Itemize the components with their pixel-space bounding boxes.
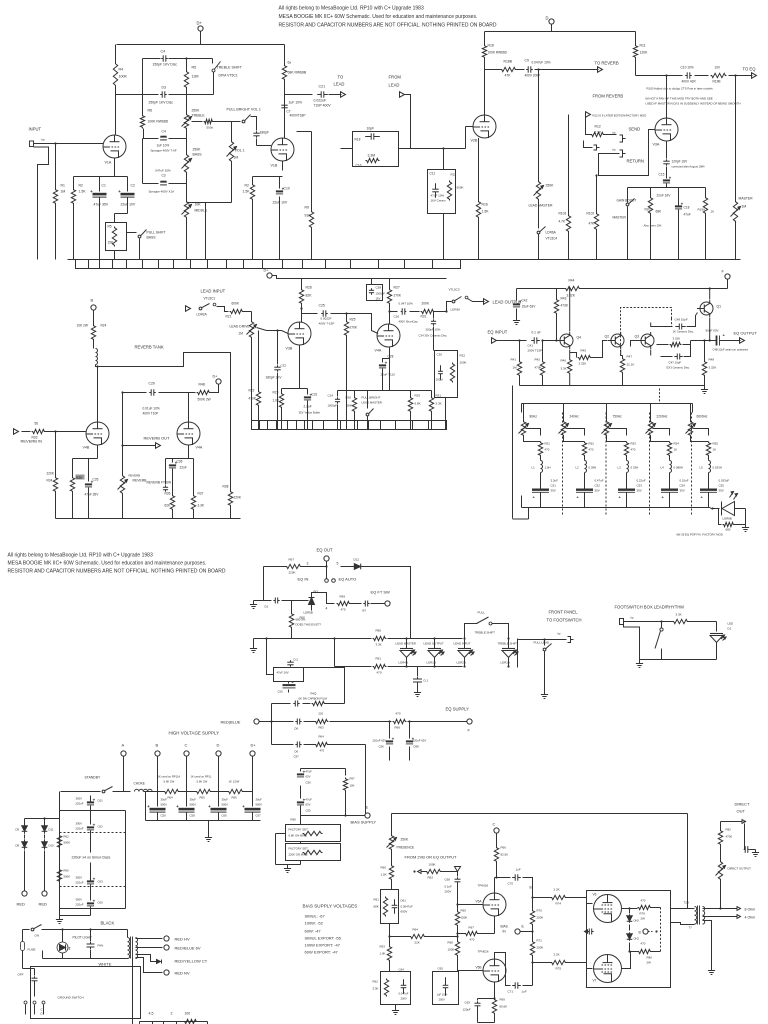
resistor R80 470 2W	[638, 942, 653, 965]
arrow TO LEAD	[329, 75, 346, 98]
svg-text:C: C	[185, 743, 188, 748]
label pin5	[337, 562, 339, 566]
wire V4A cathode	[166, 445, 194, 495]
svg-text:D.1: D.1	[424, 679, 429, 683]
svg-text:0.047 10%: 0.047 10%	[399, 302, 414, 306]
potentiometer bass 250K	[182, 130, 203, 201]
arrow lead input	[186, 306, 191, 312]
svg-text:1K 1/2W: 1K 1/2W	[229, 780, 240, 784]
svg-text:5.6K 2W: 5.6K 2W	[164, 780, 175, 784]
capacitor 120pF cathode	[663, 141, 705, 169]
triode V2B	[471, 115, 497, 143]
svg-text:Q4: Q4	[577, 336, 582, 340]
svg-text:D: D	[546, 16, 549, 21]
svg-text:500K 2W: 500K 2W	[198, 398, 211, 402]
svg-text:35V Yellow Bullet: 35V Yellow Bullet	[299, 411, 321, 415]
wire V5A grid	[456, 903, 483, 905]
label EQ SUPPLY	[446, 707, 470, 712]
diode D9	[16, 823, 28, 834]
svg-text:15K: 15K	[108, 241, 115, 245]
resistor R1 1M	[53, 142, 65, 259]
svg-text:+: +	[90, 189, 93, 194]
node HV D+	[250, 743, 256, 792]
svg-text:1000pF: 1000pF	[328, 404, 338, 408]
svg-text:475: 475	[341, 608, 346, 612]
resistor R65b 150K	[455, 905, 467, 934]
wire gain boost rail	[628, 185, 706, 205]
resistor R55 1K	[706, 442, 718, 457]
capacitor D6a	[272, 719, 302, 731]
svg-text:C15: C15	[659, 173, 665, 177]
resistor R12 2.2K	[586, 115, 617, 137]
svg-text:47uF: 47uF	[306, 798, 313, 802]
svg-text:400V T10P: 400V T10P	[143, 412, 159, 416]
svg-text:100K: 100K	[460, 361, 467, 365]
svg-text:OFF: OFF	[18, 973, 24, 977]
svg-text:22K: 22K	[415, 941, 420, 945]
capacitor C46 50uF out	[691, 329, 741, 346]
svg-text:L1: L1	[532, 466, 536, 470]
svg-text:CHOKE: CHOKE	[134, 782, 145, 786]
node B	[91, 298, 97, 311]
svg-text:50uF 63V: 50uF 63V	[706, 329, 719, 333]
capacitor C54 0.15uF	[661, 479, 689, 508]
svg-text:220K: 220K	[234, 496, 242, 500]
svg-text:R98: R98	[291, 818, 297, 822]
wire Q1 emitter out	[709, 318, 717, 342]
svg-text:V1B: V1B	[271, 164, 278, 168]
node D+ supply	[197, 21, 204, 32]
svg-text:EQ SUPPLY: EQ SUPPLY	[446, 707, 470, 712]
switch pull bright lead	[362, 391, 382, 430]
svg-text:.47uF 35V: .47uF 35V	[93, 203, 109, 207]
svg-text:.047uF 10%: .047uF 10%	[155, 169, 172, 173]
resistor R24 10K 2W	[77, 310, 107, 340]
svg-text:3.3M: 3.3M	[368, 154, 376, 158]
input jack direct	[413, 870, 425, 874]
svg-text:LEAD: LEAD	[334, 82, 345, 87]
svg-text:BLACK: BLACK	[101, 921, 115, 926]
svg-text:3.32K: 3.32K	[567, 294, 576, 298]
wire Q4 collector	[569, 287, 571, 331]
capacitor C42 15uF	[513, 289, 536, 317]
potentiometer lead drive 1M	[230, 312, 257, 430]
pentode V6	[593, 893, 622, 923]
wire cathode V1B	[253, 161, 283, 189]
label EQ OUT	[317, 548, 333, 553]
capacitor 180pF bright	[253, 122, 269, 146]
svg-text:MESA BOOGIE MK IIC+ 60W Schema: MESA BOOGIE MK IIC+ 60W Schematic. Used …	[279, 14, 478, 20]
title text block top	[279, 6, 497, 29]
svg-text:VTL5C1: VTL5C1	[204, 297, 216, 301]
fan capacitor	[87, 928, 104, 958]
svg-text:R19B: R19B	[713, 80, 721, 84]
svg-text:+: +	[385, 360, 388, 365]
svg-text:200V: 200V	[401, 997, 407, 1001]
wire fsw top	[624, 620, 673, 622]
svg-text:R21: R21	[226, 315, 232, 319]
svg-text:1uF 10%: 1uF 10%	[437, 993, 448, 997]
svg-text:C10 10%: C10 10%	[681, 66, 694, 70]
potentiometer master 1M	[731, 74, 754, 259]
svg-text:C60: C60	[98, 901, 104, 905]
wire V4A plate out	[388, 310, 397, 324]
svg-text:500V: 500V	[190, 803, 197, 807]
svg-text:D+: D+	[264, 269, 270, 273]
svg-text:SEND: SEND	[629, 127, 641, 132]
svg-text:500K: 500K	[64, 875, 71, 879]
resistor R70 200K	[530, 890, 543, 941]
svg-text:250pF 1KV Disc: 250pF 1KV Disc	[149, 101, 174, 105]
svg-text:R52: R52	[589, 442, 595, 446]
svg-text:R62: R62	[373, 980, 379, 984]
potentiometer middle 10K	[182, 201, 209, 260]
resistor R68b 150K	[448, 934, 460, 971]
svg-text:Q3: Q3	[635, 335, 640, 339]
wire OT ground leg	[703, 921, 716, 975]
wire V1B plate rail	[284, 45, 286, 139]
resistor R33 56	[22, 422, 46, 440]
svg-text:1uF 10%: 1uF 10%	[289, 101, 303, 105]
svg-text:150K: 150K	[448, 948, 455, 952]
svg-text:2200Hz: 2200Hz	[657, 415, 668, 419]
resistor R64b 22K	[390, 928, 459, 945]
svg-text:R62: R62	[428, 876, 434, 880]
resistor R69 475	[337, 595, 351, 612]
triode V5A	[476, 884, 507, 917]
potentiometer treble 250K	[182, 95, 206, 130]
wire V5B plate C71	[495, 953, 511, 986]
resistor R19A	[698, 197, 715, 260]
svg-text:LDR1B: LDR1B	[427, 661, 436, 665]
resistor R64 470	[304, 735, 366, 753]
capacitor D98 220uF	[406, 736, 426, 760]
svg-text:TREBLE SHIFT: TREBLE SHIFT	[475, 631, 496, 635]
svg-text:1.5K: 1.5K	[79, 190, 87, 194]
arrow TO EQ	[743, 67, 757, 79]
svg-text:2W: 2W	[647, 961, 652, 965]
resistor R67b 470	[456, 926, 494, 942]
tone slope rail C4	[143, 130, 187, 153]
eq band label 2200Hz	[657, 415, 668, 419]
resistor R22 470K	[249, 331, 261, 430]
svg-text:D1: D1	[728, 627, 732, 631]
svg-text:R37: R37	[198, 492, 204, 496]
resistor R25 270K	[331, 312, 358, 429]
capacitor C55 47uF	[291, 797, 313, 821]
resistor R8 68K	[282, 61, 307, 81]
eq band label 6600Hz	[697, 415, 708, 419]
arrow eq input	[492, 338, 527, 344]
svg-text:35V: 35V	[680, 489, 685, 493]
wire left plate drop	[115, 45, 117, 135]
svg-text:120K: 120K	[640, 51, 649, 55]
parallel C11 R11 box	[428, 149, 456, 260]
svg-text:C2: C2	[131, 184, 135, 188]
svg-text:400V/T18P: 400V/T18P	[290, 114, 306, 118]
wire grid V3B	[276, 329, 288, 333]
svg-text:470K: 470K	[535, 366, 542, 370]
svg-text:tip: tip	[558, 632, 561, 636]
resistor R18 100K	[482, 44, 507, 116]
capacitor C32 180pF	[266, 364, 287, 430]
svg-text:16V Ceram: 16V Ceram	[431, 199, 447, 203]
svg-text:47uF 35V: 47uF 35V	[85, 493, 100, 497]
svg-text:VOL 1: VOL 1	[235, 149, 245, 153]
node B screen	[639, 929, 658, 935]
node C	[493, 822, 500, 847]
svg-text:tip: tip	[631, 616, 634, 620]
wire mains bottom rail	[63, 958, 91, 960]
svg-text:10K: 10K	[350, 784, 355, 788]
note master mod	[646, 97, 741, 106]
dashed feedback box	[621, 308, 672, 404]
diode D83	[627, 919, 640, 953]
wire tone mid rail	[116, 94, 214, 96]
svg-text:C: C	[493, 822, 496, 827]
svg-text:+: +	[93, 876, 96, 881]
svg-text:0.033uF: 0.033uF	[719, 479, 730, 483]
svg-text:R11: R11	[640, 44, 646, 48]
svg-text:C30: C30	[437, 353, 443, 357]
wire Q3 base	[631, 341, 639, 347]
capacitor C50	[278, 681, 296, 694]
transistor Q3	[635, 332, 655, 349]
wire V2B grid	[411, 127, 474, 150]
svg-text:180pF: 180pF	[260, 131, 270, 135]
svg-text:LDR6A: LDR6A	[546, 231, 557, 235]
jack reverb ft sw	[129, 474, 173, 492]
svg-text:400V ShortCap: 400V ShortCap	[399, 320, 419, 324]
node HV A	[121, 743, 126, 792]
svg-text:C4: C4	[162, 130, 166, 134]
svg-text:250K: 250K	[193, 148, 202, 152]
label LEAD INPUT	[201, 289, 226, 301]
capacitor C53 0.22uF	[618, 479, 646, 508]
svg-text:470: 470	[470, 938, 475, 942]
label footswitch box	[615, 605, 685, 610]
svg-text:500s: 500s	[207, 126, 214, 130]
capacitor C24 1000pF	[328, 391, 341, 430]
svg-text:FACTORY SET: FACTORY SET	[289, 828, 309, 832]
switch standby	[61, 787, 131, 793]
svg-text:+: +	[392, 736, 395, 741]
svg-text:0.22uF: 0.22uF	[637, 479, 646, 483]
capacitor C10b	[681, 66, 697, 84]
capacitor C38 1000pF box	[367, 279, 386, 301]
node F	[722, 269, 731, 280]
svg-text:30uF: 30uF	[190, 798, 197, 802]
capacitor C2 22uF	[115, 184, 136, 223]
svg-text:ON: ON	[35, 934, 40, 938]
resistor R74 2.2K	[551, 888, 567, 906]
diode D82	[627, 907, 633, 922]
svg-text:B: B	[156, 743, 159, 748]
svg-text:C28: C28	[388, 355, 394, 359]
svg-text:400V 7-15P: 400V 7-15P	[319, 322, 335, 326]
svg-text:L2: L2	[576, 466, 580, 470]
wire V5A cathode	[494, 916, 496, 934]
svg-text:63V: 63V	[306, 775, 311, 779]
svg-text:C35: C35	[93, 478, 99, 482]
svg-text:22uF 10V: 22uF 10V	[121, 203, 136, 207]
svg-text:R5: R5	[108, 225, 112, 229]
svg-text:300V: 300V	[76, 797, 83, 801]
svg-text:R62: R62	[64, 835, 70, 839]
wire V6 plate right	[622, 908, 638, 910]
svg-text:Also seen 15K: Also seen 15K	[644, 224, 662, 228]
svg-text:R66: R66	[501, 846, 507, 850]
wire vol1 bottom	[187, 203, 232, 260]
bias box R62 C64	[381, 972, 411, 1007]
resistor R91 470	[373, 657, 387, 675]
wire footswitch jack	[518, 632, 574, 643]
svg-text:GAIN BOOST: GAIN BOOST	[617, 199, 637, 203]
svg-text:4 Ohm: 4 Ohm	[745, 916, 756, 920]
resistor R4 100K	[113, 63, 127, 87]
svg-text:D8: D8	[16, 844, 20, 848]
svg-text:470: 470	[320, 749, 325, 753]
wire snubber right	[304, 668, 345, 704]
svg-text:RED HV: RED HV	[175, 937, 190, 942]
wire V5B grid	[458, 970, 484, 972]
svg-text:L4: L4	[661, 466, 665, 470]
svg-text:TREBLE SHIFT: TREBLE SHIFT	[498, 642, 519, 646]
ground bias	[284, 865, 291, 873]
svg-text:0.088H: 0.088H	[674, 466, 683, 470]
resistor R54 1K	[667, 442, 679, 457]
svg-text:100: 100	[715, 66, 721, 70]
wire grid V1B	[267, 145, 272, 147]
svg-text:C70: C70	[508, 882, 514, 886]
svg-text:47uF: 47uF	[684, 213, 691, 217]
svg-text:0.0022F: 0.0022F	[321, 317, 332, 321]
triode V1A	[103, 135, 126, 165]
svg-text:LEAD INPUT: LEAD INPUT	[201, 289, 226, 294]
resistor R65 5.6K 2W	[191, 775, 213, 800]
resistor 680 eq pop	[719, 509, 746, 532]
wire mains top	[23, 925, 128, 938]
svg-text:68K: 68K	[656, 210, 663, 214]
svg-text:PULL BRIGHT: PULL BRIGHT	[362, 396, 381, 400]
svg-text:C66: C66	[222, 814, 228, 818]
wire fuse to box	[23, 968, 35, 970]
svg-text:V1A: V1A	[105, 161, 112, 165]
svg-text:47K: 47K	[589, 222, 596, 226]
transformer T2A	[684, 901, 705, 930]
svg-text:1K: 1K	[711, 210, 715, 214]
switch pull lead	[534, 640, 552, 691]
svg-text:DIRECT OUTPUT: DIRECT OUTPUT	[728, 867, 752, 871]
wire snubber feed	[265, 637, 273, 674]
svg-text:R74: R74	[556, 902, 562, 906]
secondary RED NV	[136, 958, 190, 976]
svg-text:D+: D+	[251, 743, 257, 748]
svg-text:100W EXPORT: -47: 100W EXPORT: -47	[305, 943, 341, 948]
svg-text:68K: 68K	[374, 905, 379, 909]
svg-text:LEAD MASTER: LEAD MASTER	[529, 204, 553, 208]
capacitor C47 10pF	[661, 345, 691, 370]
wire D+ lead bus	[272, 276, 446, 279]
resistor R20 68K	[644, 197, 663, 260]
resistor R30 68K	[346, 391, 357, 430]
potentiometer direct output	[716, 861, 752, 881]
svg-text:LEAD DRIVE: LEAD DRIVE	[230, 325, 251, 329]
capacitor C61 220uF	[76, 796, 104, 825]
svg-text:C48 10pF: C48 10pF	[675, 318, 688, 322]
diode D8	[16, 835, 28, 850]
svg-text:220uF x4 on Simul Class: 220uF x4 on Simul Class	[72, 856, 111, 860]
triode V4A reverb out	[177, 422, 203, 450]
svg-text:+: +	[147, 804, 150, 809]
svg-text:91K: 91K	[305, 214, 312, 218]
svg-text:C59: C59	[161, 814, 167, 818]
wire rediblue	[259, 720, 273, 722]
inductor L5 0.033H	[700, 457, 722, 485]
svg-text:470: 470	[589, 448, 594, 452]
svg-text:1K used on RP11A: 1K used on RP11A	[158, 775, 181, 779]
svg-text:B: B	[530, 886, 532, 890]
svg-text:R4Q: R4Q	[311, 692, 318, 696]
svg-text:D98: D98	[414, 745, 420, 749]
svg-text:R45: R45	[581, 349, 587, 353]
capacitor C66 30uF	[208, 792, 228, 821]
svg-text:3.3K: 3.3K	[436, 402, 442, 406]
resistor R66c 82.5K	[494, 846, 508, 878]
svg-text:TREBLE SHIFT: TREBLE SHIFT	[217, 66, 243, 70]
resistor R23 1.0K	[273, 391, 284, 430]
capacitor C30 100pF	[436, 353, 443, 382]
svg-text:30uF: 30uF	[256, 798, 263, 802]
node RED left	[17, 851, 28, 907]
svg-text:BIAS: BIAS	[501, 925, 508, 929]
label WHITE	[99, 962, 112, 967]
svg-text:All rights belong to MesaBoogi: All rights belong to MesaBoogie Ltd. RP1…	[279, 6, 424, 12]
dashed screen rail	[660, 908, 662, 952]
arrow direct out	[721, 820, 746, 830]
svg-text:Q1: Q1	[717, 305, 722, 309]
svg-text:IM NOT A FAN OF THIS MOD TRY B: IM NOT A FAN OF THIS MOD TRY BOTH AND SE…	[646, 97, 713, 101]
svg-text:BASS: BASS	[193, 153, 203, 157]
resistor R46 3.3K	[561, 350, 572, 386]
wire cathode V1A	[74, 158, 128, 192]
svg-text:80Hz: 80Hz	[530, 415, 538, 419]
svg-text:R63: R63	[319, 726, 325, 730]
svg-text:0.01uF 10%: 0.01uF 10%	[143, 407, 160, 411]
svg-text:R64: R64	[413, 928, 419, 932]
svg-text:300V: 300V	[76, 898, 83, 902]
svg-text:A: A	[122, 743, 125, 748]
svg-text:240Hz: 240Hz	[570, 415, 580, 419]
svg-text:C18: C18	[684, 206, 690, 210]
svg-text:0.33H: 0.33H	[631, 466, 639, 470]
transistor Q1	[697, 300, 721, 317]
svg-text:270K: 270K	[350, 326, 358, 330]
capacitor C1 .47uF	[90, 184, 109, 260]
svg-text:V5A: V5A	[476, 900, 483, 904]
resistor R9 91K	[297, 132, 314, 260]
svg-text:+: +	[242, 804, 245, 809]
svg-text:R43: R43	[561, 297, 567, 301]
switch contacts	[24, 1001, 45, 1016]
capacitor C67 30uF	[242, 792, 262, 821]
svg-text:LDR6B: LDR6B	[723, 517, 732, 521]
svg-text:+: +	[176, 804, 179, 809]
svg-text:47K: 47K	[505, 74, 512, 78]
resistor R51 470	[538, 442, 550, 457]
label from 2vb	[405, 855, 458, 860]
wire top plate bus	[117, 44, 285, 46]
